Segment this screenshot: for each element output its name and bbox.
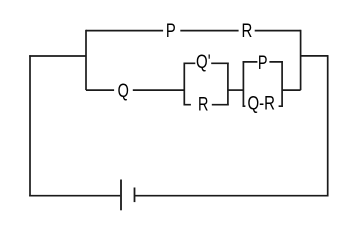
- label gap: Q' (block 1 top): [195, 60, 211, 67]
- wire: middle branch with Q to parallel block 1: [86, 89, 184, 91]
- svg-text:Q-R: Q-R: [247, 93, 275, 114]
- svg-text:P: P: [258, 52, 268, 73]
- parallel block 2: left bracket: [242, 61, 244, 107]
- wire: bottom right (battery to right rail): [135, 195, 329, 197]
- parallel block 2: bottom arm (Q-R branch): [243, 105, 283, 107]
- node A vertical (left junction between top and middle branch): [85, 30, 87, 90]
- wire: right rail vertical: [327, 56, 329, 197]
- svg-text:Q': Q': [196, 51, 211, 72]
- node B vertical (right junction between top and middle branch): [300, 30, 302, 90]
- wire: block 2 output to node B: [282, 89, 301, 91]
- parallel block 1: left bracket: [183, 63, 185, 106]
- parallel block 2: right bracket: [281, 61, 283, 107]
- wire: left rail vertical: [29, 55, 31, 196]
- label gap: R (top branch): [239, 27, 255, 34]
- parallel block 1: bottom arm (R branch): [184, 104, 229, 106]
- wire: left feed from left rail to node A: [29, 55, 86, 57]
- label gap: P (block 2 top): [257, 58, 269, 65]
- battery cell B1: long plate: [120, 180, 122, 211]
- svg-text:R: R: [241, 21, 252, 42]
- svg-text:P: P: [166, 20, 176, 41]
- label gap: P (top branch): [163, 27, 180, 34]
- wire: connector between block 1 and block 2: [228, 89, 244, 91]
- parallel block 1: right bracket: [227, 63, 229, 106]
- wire: tap from node B to right rail: [301, 55, 329, 57]
- parallel block 1: top arm (Q' branch): [184, 62, 229, 64]
- label gap: R (block 1 bottom): [191, 101, 212, 108]
- label gap: Q-R (block 2 bottom): [245, 103, 278, 110]
- parallel block 2: top arm (P branch): [243, 61, 283, 63]
- svg-text:Q: Q: [118, 80, 129, 101]
- label gap: Q (middle branch): [114, 87, 133, 94]
- battery cell B1: short plate: [134, 188, 136, 203]
- svg-text:R: R: [198, 94, 208, 115]
- wire: top branch (series P and R): [86, 30, 301, 32]
- wire: bottom left (rail to battery): [29, 195, 120, 197]
